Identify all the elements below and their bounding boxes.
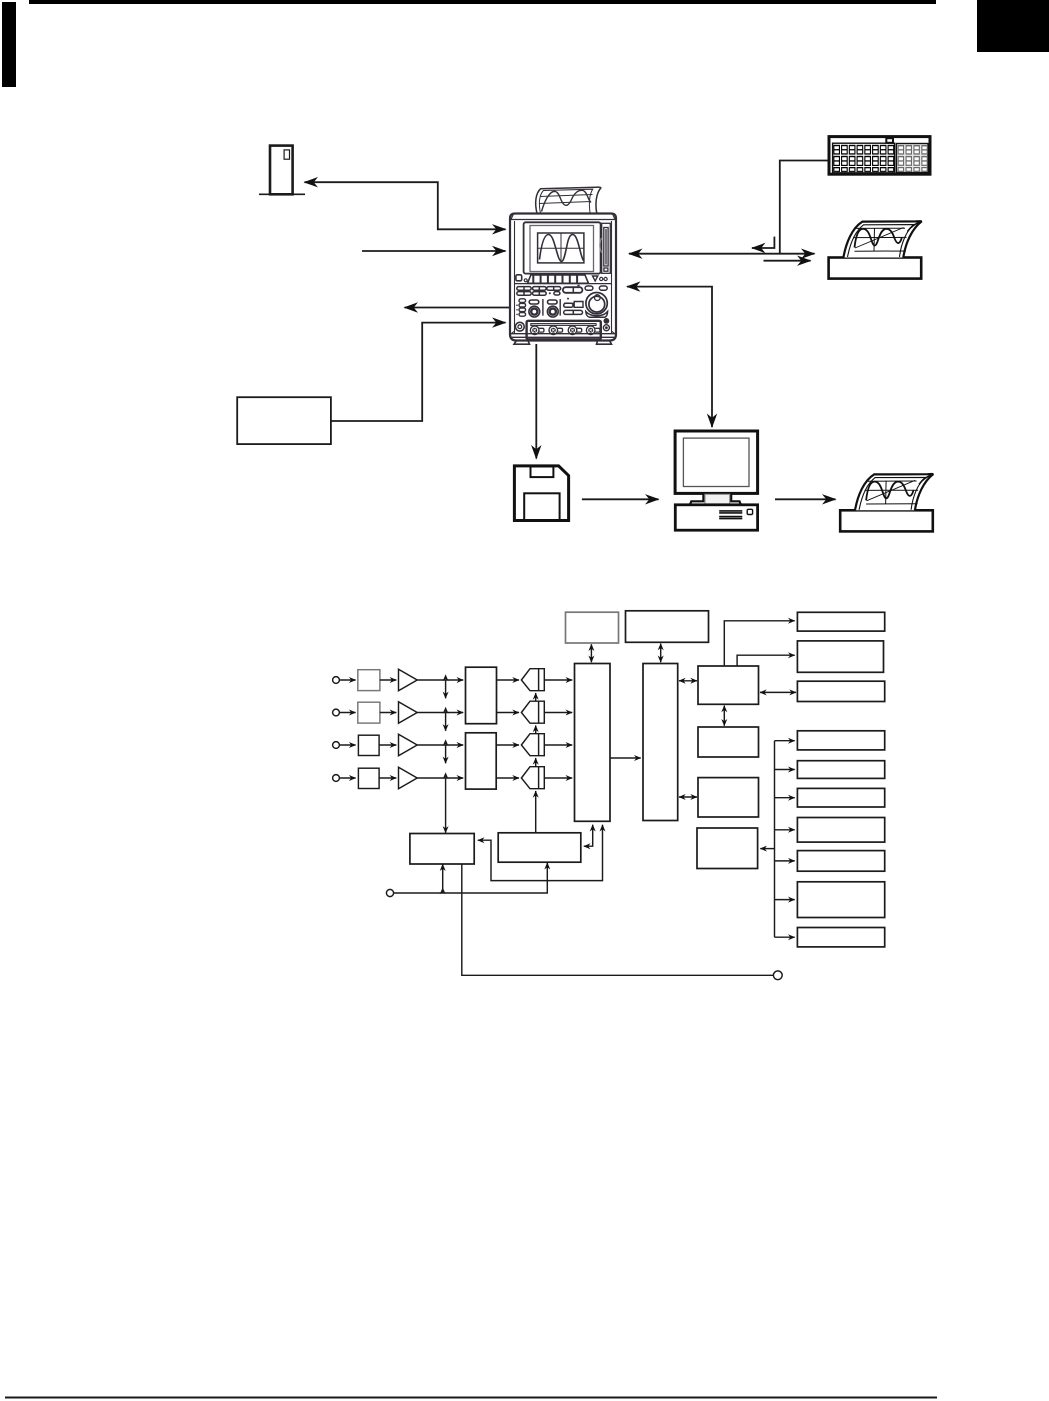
bus branch to panel box 4 [775,829,795,831]
wire keyboard drop line [780,161,829,254]
wire CPU up to interface box 1 [724,621,794,666]
panel divider [514,283,611,285]
CH3 trigger stub arrow [445,745,447,763]
chart paper sticking out top [536,187,601,213]
display memory (tall box 2) [643,664,678,821]
bidir arrow CPU to interface box 3 [760,691,796,693]
CH4 wire to ADC [417,777,463,779]
trigger circuit box [410,834,474,865]
printer with chart paper (upper) [829,221,922,278]
CH3 wire to attenuator [339,744,355,746]
CH1 trigger stub arrow [445,680,447,698]
wire acq memory to display memory [610,757,641,759]
panel box 3 [797,788,884,807]
ext trig junction mark [440,887,446,894]
CH2 trigger pickoff junction [443,707,449,714]
CH4 wire to amp [379,777,396,779]
keyboard to scope hook arrow [752,237,774,248]
panel box 7 [797,928,884,947]
BNC input strip [527,321,601,340]
CH4 wire to attenuator [339,777,355,779]
panel box 2 [797,761,884,779]
bus branch to panel box 2 [775,769,795,771]
CH3 attenuator box [358,735,379,755]
top cap line [511,214,617,220]
signal source tower device [259,146,305,195]
soft key pill rows [517,285,607,295]
right aux terminals [604,318,610,324]
CH1 wire to attenuator [339,679,355,681]
external trigger input terminal [386,889,393,896]
keyboard main keys [833,145,894,172]
wire input to scope (plain to arrow) [362,250,506,252]
left small pill column [516,299,525,316]
CH1 trigger pickoff junction [443,674,449,681]
CH2 buffer symbol [521,701,544,723]
sampling clock riser segment 3 [535,758,537,767]
panel box 6 [797,882,884,918]
bus branch to panel box 7 [775,936,795,938]
bus branch left to key scan controller [760,848,774,850]
sampling clock riser segment 2 [535,726,537,734]
CH2 wire to amp [380,712,396,714]
CH4 buffer symbol [521,767,544,789]
wire scope to floppy [535,344,537,459]
CH2 wire to attenuator [339,712,355,714]
wire scope to printer (bidirectional) [629,253,815,255]
floppy drive slot [600,223,610,273]
floppy disk [514,466,568,521]
CH3 amplifier [399,734,418,756]
bus branch to panel box 5 [775,860,795,862]
bidir arrow top box1 to acq memory [590,644,592,662]
CPU box [698,666,759,704]
I/O controller box [698,778,759,817]
CH1 wire to ADC [417,679,463,681]
panel box 4 [797,818,884,843]
knob separators [543,299,560,316]
CH3 ADC to buffer wire [496,744,519,746]
interface box 3 (right) [797,681,884,701]
CH1 wire to amp [380,679,396,681]
CH3 buffer symbol [521,734,544,756]
CH3 wire to amp [379,744,396,746]
CH4 buffer to acquisition memory wire [544,777,572,779]
header right black chapter box [977,0,1049,52]
CH4 trigger pickoff junction [443,772,449,779]
CH3 buffer to acquisition memory wire [544,744,572,746]
keyboard [829,137,930,175]
screen [530,226,594,272]
header left black tab [2,2,16,87]
bidir arrow CPU to memory box below [723,706,725,726]
CH1 buffer symbol [521,669,544,691]
short arrow to printer [764,260,811,262]
screen bezel [524,222,601,273]
side bevels [510,221,615,335]
time base box [498,833,581,862]
bidir arrow top box2 to display memory [660,644,662,663]
CH2 trigger stub arrow [445,713,447,731]
panel box 1 [797,731,884,750]
horizontal control cluster [564,298,583,315]
screen waveform [540,234,584,261]
CH2 attenuator box [358,702,380,723]
scope main body [510,214,616,341]
CH4 amplifier [399,767,418,789]
interface box 1 (top right) [797,612,884,631]
interface box 2 (right) [797,641,883,672]
CH1 amplifier [399,669,418,691]
footer rule [5,1397,937,1399]
jog shuttle knob [586,293,608,318]
external trigger wire [394,863,548,893]
CH2 wire to ADC [417,712,463,714]
sampling clock riser segment 1 [535,693,537,701]
bus branch to panel box 3 [775,797,795,799]
ADC block channels 3-4 [466,733,497,789]
BNC connectors [530,326,600,335]
keyboard numpad keys [898,145,928,172]
CH4 ADC to buffer wire [496,777,519,779]
menu key row [516,275,607,284]
time base to acq memory link [584,825,593,846]
waveform grid box [538,233,584,263]
header top rule bar [29,0,936,4]
ext trig branch to trigger circuit [442,864,444,893]
bus branch to panel box 6 [775,899,795,901]
CH1 buffer to acquisition memory wire [544,679,572,681]
vertical knob group 1 [529,300,540,317]
wire floppy to computer [582,498,659,500]
key scan controller box [697,828,758,869]
base and feet [511,334,615,345]
memory box below CPU [698,727,759,757]
bus branch to panel box 1 [775,740,795,742]
CH2 ADC to buffer wire [497,712,520,714]
wire computer to printer2 [775,498,836,500]
CH1 attenuator box [358,670,380,691]
printer with chart paper (lower right) [840,474,933,531]
sampling clock riser from time base [535,791,537,833]
wire external unit to scope [331,323,506,421]
CH4 input terminal [333,775,340,782]
trigger/acq link wire [478,825,603,881]
bidir arrow display memory to I/O controller [679,796,697,798]
panel bus vertical line [774,741,776,938]
wire scope to computer (bidirectional bent) [627,287,712,427]
wire scope output left [405,307,511,309]
CH3 trigger pickoff junction [443,739,449,746]
personal computer [675,431,758,530]
oscilloscope (DL series) [510,187,616,344]
CH1 ADC to buffer wire [497,679,520,681]
trigger output terminal [773,971,782,980]
graticule lines [538,233,584,263]
CH3 input terminal [333,742,340,749]
top option box 2 [626,611,709,643]
CH2 buffer to acquisition memory wire [544,712,572,714]
vertical knob group 2 [547,300,558,317]
CH2 input terminal [333,709,340,716]
CH2 amplifier [399,702,418,724]
CH4 wire down to trigger circuit [445,778,447,833]
CH3 wire to ADC [417,744,463,746]
acquisition memory (tall box 1) [575,664,611,822]
cal terminal left [515,322,524,331]
CH1 input terminal [333,677,340,684]
external unit box lower-left [237,397,331,444]
CH4 attenuator box [358,768,379,788]
panel box 5 [797,851,884,872]
wire CPU up to interface box 2 [737,655,795,666]
top option box 1 [566,612,619,643]
bidir arrow display memory to CPU [679,680,697,682]
trigger output wire to terminal [462,864,773,975]
ADC block channels 1-2 [466,667,497,724]
wire scope to signal source (bent, arrows both ends) [305,182,506,229]
